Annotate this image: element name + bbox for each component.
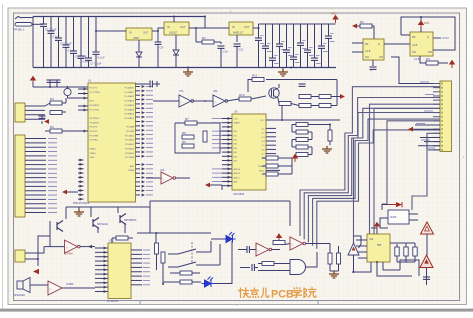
ADC left pin 17 bbox=[222, 185, 232, 187]
svg-text:U18: U18 bbox=[369, 239, 374, 241]
wire lower gate input bbox=[258, 270, 290, 272]
wire J2 pin 10 bbox=[25, 177, 46, 179]
mcu left stub bbox=[78, 93, 88, 95]
input cap C35 bbox=[240, 267, 250, 269]
connector J2 bbox=[15, 135, 25, 217]
wire to transistor stage bbox=[227, 99, 239, 101]
MOSFET Q1 bbox=[269, 88, 279, 98]
red arrow ADC bbox=[205, 183, 210, 188]
inverter U10 bbox=[44, 246, 64, 248]
capacitor C9 bbox=[157, 31, 159, 42]
wire J2 pin 11 bbox=[25, 181, 46, 183]
optocoupler U17 4N35 bbox=[388, 210, 409, 224]
verticals from bundle bbox=[329, 244, 331, 254]
svg-text:ADD B: ADD B bbox=[234, 172, 241, 175]
U12 left pin 3 bbox=[95, 256, 108, 258]
capacitor C20 bbox=[314, 24, 316, 58]
wire J2 pin 17 bbox=[25, 207, 46, 209]
input cap C34 bbox=[238, 249, 247, 251]
wire U7A to U8A bbox=[193, 100, 213, 102]
transistor Q2 bbox=[90, 207, 92, 217]
555 bottom loop bbox=[352, 262, 371, 272]
svg-text:U7A: U7A bbox=[179, 90, 184, 93]
wire U13 out bbox=[271, 249, 280, 251]
svg-text:P0.5/AD5: P0.5/AD5 bbox=[125, 108, 135, 111]
ADC left pin 7 bbox=[222, 143, 232, 145]
window left edge line bbox=[2, 4, 4, 309]
transistor Q3 bbox=[117, 207, 119, 213]
wire to MCU RST bbox=[65, 98, 67, 103]
svg-text:P3.2/INT0: P3.2/INT0 bbox=[90, 118, 101, 120]
resistor R17 bbox=[319, 104, 331, 108]
svg-text:Q: Q bbox=[427, 36, 429, 39]
capacitor C1 bbox=[43, 17, 45, 25]
U12 left pin 10 bbox=[95, 286, 108, 288]
U6 bottom circuit bbox=[420, 56, 426, 63]
capacitor C7 bbox=[88, 17, 90, 59]
resistor R15 bbox=[319, 95, 331, 99]
wire below comparator bbox=[353, 255, 355, 272]
wire T1 down bbox=[426, 234, 428, 255]
power arrow right bbox=[340, 94, 345, 99]
svg-text:VCC: VCC bbox=[260, 120, 265, 122]
svg-text:U8A: U8A bbox=[213, 90, 218, 93]
U12 right pin 5 bbox=[131, 266, 142, 268]
inverter U19 beep bbox=[146, 177, 161, 179]
top wire from ADC bbox=[276, 119, 340, 121]
wire inv out bbox=[80, 246, 96, 248]
svg-text:ADD C: ADD C bbox=[234, 176, 241, 179]
inverter U13 bbox=[256, 243, 269, 256]
svg-text:START: START bbox=[234, 122, 241, 125]
wire J2 pin 4 bbox=[25, 151, 46, 153]
svg-text:R9: R9 bbox=[182, 140, 186, 144]
svg-text:P2.4/A12: P2.4/A12 bbox=[125, 143, 135, 146]
IC U12 bbox=[108, 243, 131, 299]
svg-text:7805: 7805 bbox=[133, 36, 139, 40]
capacitor C18 bbox=[300, 24, 302, 43]
bus wire B12 bbox=[412, 133, 440, 210]
U5 bottom pin bbox=[372, 60, 374, 66]
wire flip-flop to connector bbox=[391, 57, 440, 84]
wires J4 bbox=[25, 247, 44, 253]
svg-text:C10: C10 bbox=[223, 50, 229, 54]
MCU right pin stubs group P3 bbox=[136, 164, 141, 166]
capacitor C13 bbox=[265, 24, 267, 46]
svg-text:P2.3/A11: P2.3/A11 bbox=[125, 139, 135, 142]
svg-text:C11: C11 bbox=[239, 48, 244, 52]
EA cap circuit bbox=[136, 83, 150, 85]
wires to right bbox=[220, 130, 232, 132]
U12 left pin 8 bbox=[95, 277, 108, 279]
power flag VCC4 bbox=[31, 77, 36, 85]
wire T2 down bbox=[426, 268, 428, 286]
wire left drop bbox=[32, 17, 34, 68]
U5 left pin wires bbox=[352, 42, 363, 44]
U12 left pin 5 bbox=[95, 264, 108, 266]
power flag VCC3 bbox=[450, 61, 455, 69]
svg-text:P3.0/RXD: P3.0/RXD bbox=[90, 105, 100, 107]
wire J1 pin 4 bbox=[25, 118, 45, 120]
bus wire B16 short bbox=[428, 149, 440, 151]
svg-text:PSEN: PSEN bbox=[128, 170, 134, 172]
rail to bank2 bbox=[253, 24, 259, 28]
svg-text:R1: R1 bbox=[202, 36, 206, 40]
svg-text:P2.0/A8: P2.0/A8 bbox=[126, 126, 135, 129]
wire J1 pin 2 bbox=[25, 109, 45, 111]
U12 right pin 8 bbox=[131, 279, 142, 281]
svg-text:P0.7/AD7: P0.7/AD7 bbox=[125, 117, 135, 120]
ADC left pin 5 bbox=[222, 134, 232, 136]
wire y233 relay rail bbox=[137, 232, 211, 234]
resistor RM1 bbox=[266, 156, 278, 160]
svg-text:RST: RST bbox=[90, 101, 95, 103]
ADC left pin 1 bbox=[222, 118, 232, 120]
ADC left pin 3 bbox=[222, 126, 232, 128]
resistor RL4 bbox=[296, 145, 308, 149]
resistor R6 bbox=[50, 129, 62, 133]
svg-text:P1.1/T2EX: P1.1/T2EX bbox=[90, 92, 101, 94]
op-amp U8A bbox=[213, 95, 225, 107]
wire fuse to bank bbox=[32, 23, 44, 25]
svg-text:SN7404: SN7404 bbox=[64, 253, 73, 256]
red arrow XTAL bbox=[62, 190, 67, 195]
svg-text:LM1117: LM1117 bbox=[169, 32, 178, 35]
speaker LS1 bbox=[17, 278, 30, 293]
red triangle T1 bbox=[421, 222, 434, 234]
svg-text:AT 24C02: AT 24C02 bbox=[107, 300, 119, 303]
ADC left pin 12 bbox=[222, 164, 232, 166]
switch SW2 bbox=[168, 266, 178, 268]
mcu left stub bbox=[78, 105, 88, 107]
U12 left pin 4 bbox=[95, 260, 108, 262]
svg-text:PRJB1.1: PRJB1.1 bbox=[14, 28, 25, 32]
svg-text:GND: GND bbox=[90, 157, 95, 159]
svg-text:P2.7/A15: P2.7/A15 bbox=[125, 156, 135, 159]
bottom rail bbox=[33, 67, 336, 69]
svg-text:P2.6/A14: P2.6/A14 bbox=[125, 152, 135, 155]
resistor RL5 bbox=[296, 153, 308, 157]
ADC left pin 6 bbox=[222, 139, 232, 141]
connector J3 bbox=[440, 81, 452, 152]
wire J2 pin 2 bbox=[25, 142, 46, 144]
svg-text:MPSA42: MPSA42 bbox=[97, 222, 108, 226]
svg-text:A1.B: A1.B bbox=[412, 44, 418, 47]
ADC U9 ADC0809 bbox=[232, 114, 266, 190]
svg-text:P0.4/AD4: P0.4/AD4 bbox=[125, 104, 135, 107]
bus wire B1 bbox=[300, 87, 440, 236]
capacitor C15 bbox=[279, 24, 281, 44]
svg-text:C1.B: C1.B bbox=[365, 50, 371, 53]
svg-text:P0.6/AD6: P0.6/AD6 bbox=[125, 113, 135, 116]
svg-text:R12: R12 bbox=[239, 93, 245, 97]
MCU U1 AT89S52 bbox=[88, 83, 136, 202]
wire bank to U2 bbox=[96, 31, 126, 52]
ADC left pin 10 bbox=[222, 155, 232, 157]
rail with ground bbox=[66, 206, 150, 208]
svg-text:R8: R8 bbox=[182, 131, 186, 135]
svg-text:MPS8550: MPS8550 bbox=[124, 218, 137, 222]
ground GND3 bbox=[322, 146, 332, 153]
svg-text:P3.3/INT1: P3.3/INT1 bbox=[90, 122, 101, 124]
opto wires bbox=[380, 218, 388, 228]
long wire y201 bbox=[137, 201, 150, 233]
svg-text:Q: Q bbox=[378, 43, 380, 46]
MCU right pin stubs group P0 bbox=[136, 86, 141, 88]
U6 top pin drop bbox=[420, 17, 422, 32]
cap CV3 bbox=[413, 247, 417, 256]
resistor R7 bbox=[185, 121, 197, 125]
ADC left pin 16 bbox=[222, 181, 232, 183]
ground GND4 bbox=[78, 207, 80, 209]
svg-text:P0.1/AD1: P0.1/AD1 bbox=[125, 91, 135, 94]
resistor R1 bbox=[202, 40, 214, 44]
capacitor C22 bbox=[328, 24, 330, 36]
resistor R10 vertical bbox=[203, 131, 207, 142]
inverter U14 bbox=[290, 237, 303, 250]
ADC left pin 14 bbox=[222, 172, 232, 174]
555 left wires bbox=[356, 239, 367, 241]
transistor Q4 bbox=[65, 207, 67, 219]
rail drop to U3 top bbox=[173, 17, 175, 23]
svg-text:PR: PR bbox=[365, 43, 369, 46]
U12 left pin 2 bbox=[95, 251, 108, 253]
timer U18 NE555 bbox=[367, 234, 390, 262]
svg-text:P2.2/A10: P2.2/A10 bbox=[125, 134, 135, 137]
flip-flop pin marks bbox=[365, 56, 369, 58]
connector J4 bbox=[15, 250, 25, 262]
power flag VCC1 bbox=[333, 16, 338, 24]
top rail 555 bbox=[390, 242, 415, 244]
capacitor C2 bbox=[50, 17, 52, 32]
op-amp U7A bbox=[179, 95, 191, 107]
resistor RL2 bbox=[296, 130, 308, 134]
power flag VCC2 bbox=[419, 21, 424, 29]
comparator loop to 555 bbox=[354, 236, 362, 248]
capacitor C32 bbox=[41, 116, 43, 120]
svg-text:P0.3/AD3: P0.3/AD3 bbox=[125, 100, 135, 103]
resistor RM3 bbox=[266, 172, 278, 176]
wire U2 out to U3 bbox=[152, 28, 164, 31]
ADC left pin 15 bbox=[222, 176, 232, 178]
bus wire B10 short bbox=[415, 124, 440, 126]
cap CV2 bbox=[404, 247, 408, 256]
bus wire B15 short bbox=[418, 145, 440, 147]
svg-text:0.1uF: 0.1uF bbox=[98, 56, 105, 60]
resistor R27 vertical bbox=[337, 253, 341, 264]
capacitor C12 bbox=[258, 24, 260, 38]
regulator U3 bbox=[164, 22, 189, 35]
comparator triangle up U16 bbox=[348, 243, 359, 255]
resistor R24 bbox=[273, 241, 285, 245]
ADC left pin 13 bbox=[222, 168, 232, 170]
svg-text:U1: U1 bbox=[88, 79, 92, 83]
resistor R20 vertical bbox=[155, 233, 157, 243]
power flag VCC5 bbox=[293, 155, 298, 163]
U12 right pin 7 bbox=[131, 275, 142, 277]
svg-text:P3.6/WR: P3.6/WR bbox=[90, 135, 99, 137]
bus wire B6 to 555 pin bbox=[370, 104, 441, 234]
resistor R16 bbox=[299, 104, 311, 108]
wire U3 out to U4 bbox=[189, 27, 229, 29]
flip-flop U6 bbox=[410, 32, 433, 56]
svg-text:LM386: LM386 bbox=[66, 283, 74, 286]
loop wire around U6 bbox=[401, 17, 455, 50]
electrolytic cap E1 bbox=[64, 88, 71, 95]
wire LED2 bbox=[211, 238, 223, 240]
U12 right pin 9 bbox=[131, 284, 142, 286]
switch S1 bbox=[15, 17, 22, 20]
wire J2 pin 9 bbox=[25, 172, 46, 174]
resistor RL3 bbox=[296, 138, 308, 142]
svg-text:P2.1/A9: P2.1/A9 bbox=[126, 130, 135, 133]
wire amp out bbox=[62, 287, 95, 289]
red diode bbox=[396, 202, 402, 207]
cap C36 bbox=[423, 276, 430, 278]
svg-text:P3.4/T0: P3.4/T0 bbox=[90, 127, 98, 129]
resistor R19 above U12 bbox=[116, 236, 128, 240]
regulator U2 7805 bbox=[126, 28, 152, 40]
wire 555 top bbox=[371, 228, 377, 234]
resistor RM2 bbox=[266, 164, 278, 168]
wire J2 pin 3 bbox=[25, 146, 46, 148]
resistor R11 bbox=[252, 78, 264, 82]
ADC left pin 11 bbox=[222, 160, 232, 162]
wire after LED bbox=[214, 241, 232, 284]
relay dashed link bbox=[191, 242, 193, 264]
svg-text:P0.0/AD0: P0.0/AD0 bbox=[125, 87, 135, 90]
MCU right pin stubs group P2 bbox=[136, 121, 141, 123]
connector J1 bbox=[15, 103, 25, 122]
svg-text:R3: R3 bbox=[426, 57, 430, 61]
loop wire bottom-left bbox=[38, 236, 50, 266]
svg-text:C: C bbox=[370, 68, 372, 72]
amp U11 bbox=[30, 284, 48, 286]
power arrow red bbox=[33, 269, 39, 275]
bus wire labels bbox=[420, 81, 429, 83]
U12 left pin 6 bbox=[95, 269, 108, 271]
cap C33 bbox=[278, 84, 280, 88]
title block dividers bbox=[139, 301, 141, 305]
resistor R5 bbox=[50, 111, 62, 115]
wire J2 pin 8 bbox=[25, 168, 46, 170]
ADC left pin 8 bbox=[222, 147, 232, 149]
wire J2 pin 1 bbox=[25, 138, 46, 140]
ADC left pin 9 bbox=[222, 151, 232, 153]
diode D2 bbox=[175, 35, 177, 50]
wire J1 pin 3 bbox=[25, 114, 45, 116]
svg-text:ALE: ALE bbox=[234, 181, 239, 184]
loop top rail bbox=[248, 80, 252, 93]
bus wire B3 bbox=[308, 108, 440, 242]
svg-text:ADC0809: ADC0809 bbox=[233, 192, 245, 196]
feedback loop wire bbox=[175, 123, 220, 153]
svg-text:555: 555 bbox=[377, 244, 382, 247]
resistor R18 vertical bbox=[328, 130, 332, 141]
svg-text:CLK: CLK bbox=[234, 119, 239, 121]
capacitor C14 bbox=[272, 24, 274, 58]
bus wire B4 bbox=[313, 119, 440, 246]
resistor R25 bbox=[262, 262, 274, 266]
power arrow P1 bbox=[44, 119, 49, 124]
mcu left stub bbox=[78, 97, 88, 99]
capacitor C11 bbox=[236, 35, 238, 42]
rail drop junction bbox=[204, 17, 206, 29]
wire AND out bbox=[306, 252, 318, 267]
svg-text:OUT: OUT bbox=[180, 25, 186, 29]
capacitor C6 bbox=[80, 17, 82, 57]
ladder2 wires bbox=[291, 158, 293, 174]
wire J1 pin 1 bbox=[25, 105, 45, 107]
wire J2 pin 12 bbox=[25, 185, 46, 187]
wire J2 pin 14 bbox=[25, 194, 46, 196]
wire J2 pin 6 bbox=[25, 159, 46, 161]
capacitor C3 bbox=[58, 17, 60, 39]
capacitor C21 bbox=[321, 24, 323, 46]
svg-text:R11: R11 bbox=[252, 74, 258, 78]
svg-text:TXD1-: TXD1- bbox=[258, 170, 264, 172]
resistor R14 bbox=[299, 95, 311, 99]
capacitor C19 bbox=[307, 24, 309, 50]
svg-text:SPEAKER: SPEAKER bbox=[14, 294, 25, 297]
bus wire B11 with red arrow bbox=[408, 127, 413, 132]
svg-text:PCB: PCB bbox=[271, 288, 294, 300]
svg-text:OUT: OUT bbox=[244, 25, 250, 29]
mcu left stub bbox=[78, 109, 88, 111]
U6 right stub bbox=[433, 37, 441, 39]
svg-text:PR: PR bbox=[412, 36, 416, 39]
svg-text:R6: R6 bbox=[50, 125, 54, 129]
svg-text:VCC: VCC bbox=[424, 22, 429, 25]
svg-text:U9: U9 bbox=[234, 110, 238, 114]
wire U5 Q to U6 D bbox=[384, 43, 410, 45]
svg-text:R2: R2 bbox=[360, 20, 364, 24]
junction dots bbox=[95, 30, 97, 32]
svg-text:P1.0/T2: P1.0/T2 bbox=[90, 88, 98, 90]
top rail bbox=[33, 16, 205, 18]
ladder1 zigzag wires bbox=[292, 124, 296, 126]
resistor R23 bbox=[180, 280, 192, 284]
capacitor C31 bbox=[56, 80, 58, 87]
svg-text:P3.1/TXD: P3.1/TXD bbox=[90, 109, 100, 111]
ADC right pin wires bbox=[266, 119, 282, 121]
U12 right pin 2 bbox=[131, 253, 142, 255]
resistor RL1 bbox=[296, 123, 308, 127]
flip-flop U5 bbox=[363, 39, 384, 60]
wire J2 pin 15 bbox=[25, 198, 46, 200]
svg-text:XTAL1: XTAL1 bbox=[90, 152, 97, 155]
bus wire B9 to opto bbox=[382, 121, 440, 204]
capacitor C4 bbox=[65, 17, 67, 46]
svg-text:XTAL2: XTAL2 bbox=[90, 147, 97, 150]
ADC left pin 2 bbox=[222, 122, 232, 124]
svg-text:4N25: 4N25 bbox=[390, 215, 397, 219]
stage wires bbox=[291, 104, 299, 106]
U12 left pin 7 bbox=[95, 273, 108, 275]
svg-text:ADD A: ADD A bbox=[234, 168, 241, 171]
bank2 top rail bbox=[259, 23, 336, 25]
resistor R21 vertical bbox=[161, 252, 165, 263]
svg-text:C1.B: C1.B bbox=[414, 58, 420, 61]
bus wire B5 bbox=[317, 130, 440, 249]
LED D4 blue bbox=[223, 232, 236, 243]
resistor R4 bbox=[50, 101, 62, 105]
svg-text:VCC: VCC bbox=[331, 12, 337, 16]
ground GND1 bbox=[187, 68, 189, 70]
ground GND2 bbox=[282, 68, 284, 70]
diode D1 bbox=[138, 40, 140, 52]
red triangle T2 bbox=[420, 255, 433, 268]
